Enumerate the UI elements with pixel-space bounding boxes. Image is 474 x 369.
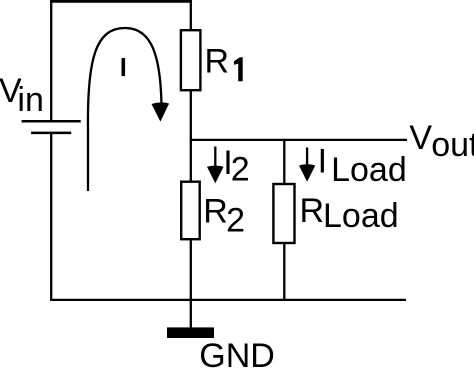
resistor R1 — [181, 30, 201, 90]
svg-text:R: R — [300, 192, 325, 230]
svg-text:Load: Load — [331, 151, 407, 189]
current loop arrow I (Vin mesh current) — [88, 28, 169, 191]
label RLoad — [300, 192, 399, 235]
label R1 — [205, 43, 243, 82]
wire bottom (ground rail) — [50, 299, 406, 301]
svg-text:R: R — [203, 193, 228, 231]
svg-text:out: out — [431, 126, 474, 164]
resistor RLoad — [273, 184, 294, 243]
wire middle vertical: R2 bottom through bottom wire to ground symbol — [190, 239, 192, 327]
wire RLoad bottom to ground rail — [283, 243, 285, 300]
ground — [167, 327, 214, 338]
current arrow I2 (into R2) — [207, 147, 224, 184]
wire top (Vin+ to R1 top) — [50, 0, 192, 3]
label Vin — [0, 72, 44, 119]
battery Vin: short (-) plate — [31, 132, 71, 135]
label I (loop current) — [122, 58, 126, 76]
svg-text:Load: Load — [323, 197, 399, 235]
svg-text:2: 2 — [231, 151, 250, 189]
wire RLoad branch: Vout wire down to RLoad top — [283, 140, 285, 184]
label R2 — [203, 193, 245, 240]
svg-text:I: I — [318, 143, 327, 181]
wire middle vertical: R1 bottom through Vout node to R2 top — [190, 90, 192, 182]
svg-text:V: V — [409, 119, 432, 157]
svg-text:GND: GND — [199, 337, 275, 369]
resistor R2 — [181, 182, 200, 240]
label ILoad — [318, 143, 407, 190]
wire left upper (top wire down to battery + plate) — [50, 0, 52, 121]
node Vout: horizontal output wire — [191, 139, 407, 141]
battery Vin: long (+) plate — [22, 120, 81, 123]
label Vout — [409, 119, 474, 164]
wire left lower (battery - plate down to bottom wire) — [50, 133, 52, 301]
current arrow ILoad (into RLoad) — [299, 148, 315, 182]
svg-text:2: 2 — [226, 201, 245, 239]
wire middle vertical: top wire to R1 top — [190, 1, 192, 30]
svg-text:R: R — [205, 43, 230, 81]
label I2 — [223, 144, 249, 189]
svg-text:in: in — [17, 81, 43, 119]
